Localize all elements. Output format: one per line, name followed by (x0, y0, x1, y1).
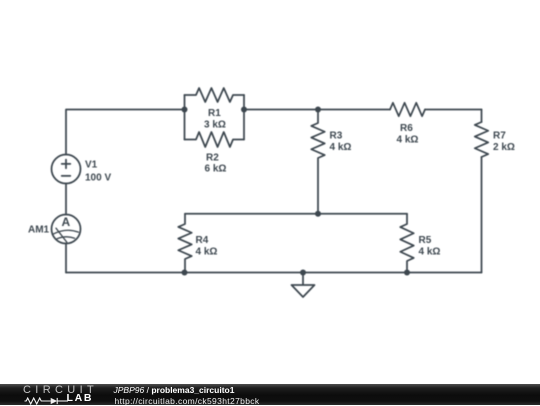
footer title line (114, 385, 235, 395)
resistor R6 (390, 103, 425, 116)
svg-text:2 kΩ: 2 kΩ (493, 142, 515, 153)
junction node R3 top (315, 107, 321, 113)
svg-text:R6: R6 (400, 123, 413, 134)
svg-text:4 kΩ: 4 kΩ (196, 247, 218, 258)
junction node R5 bottom (404, 270, 410, 276)
V1 plus sign (62, 160, 71, 169)
resistor R7 (475, 122, 488, 157)
resistor R1 (185, 88, 245, 102)
svg-text:4 kΩ: 4 kΩ (397, 135, 419, 146)
wire top-left: V1 top to R1/R2 left node (66, 110, 185, 155)
wire right rail upper (R7 top lead) (481, 110, 483, 123)
footer bar (0, 384, 540, 405)
resistor R4 with leads (178, 214, 191, 273)
AM1 needle (56, 228, 67, 242)
wire top-middle: R1/R2 right node to R3 node (244, 109, 318, 111)
resistor R3 with leads (311, 110, 324, 214)
svg-text:R1: R1 (208, 108, 221, 119)
footer url line (115, 396, 260, 406)
middle wire R4 top to R5 top (185, 213, 407, 215)
svg-text:4 kΩ: 4 kΩ (419, 247, 441, 258)
ammeter AM1 circle (52, 215, 81, 244)
svg-text:R5: R5 (419, 235, 432, 246)
wire right rail lower (R7 bottom to bottom wire) (481, 157, 483, 273)
svg-text:6 kΩ: 6 kΩ (205, 164, 227, 175)
bottom wire (66, 272, 482, 274)
V1 minus sign (62, 175, 71, 177)
svg-text:A: A (62, 215, 71, 229)
junction node R1R2 right (241, 107, 247, 113)
parallel block left vertical (184, 95, 186, 140)
svg-text:R7: R7 (493, 131, 506, 142)
svg-text:100 V: 100 V (85, 173, 111, 184)
svg-text:V1: V1 (85, 160, 98, 171)
wire AM1 bottom to bottom wire (65, 244, 67, 273)
junction node R3 bottom (315, 211, 321, 217)
wire V1 bottom to AM1 top (65, 184, 67, 215)
logo resistor zigzag and diode (24, 398, 68, 404)
resistor R5 with leads (400, 214, 413, 273)
AM1 meter arc small (57, 237, 75, 239)
svg-text:4 kΩ: 4 kΩ (330, 142, 352, 153)
wire R6 to top-right corner (425, 109, 482, 111)
svg-text:AM1: AM1 (28, 225, 50, 236)
svg-text:3 kΩ: 3 kΩ (204, 120, 226, 131)
parallel block right vertical (243, 95, 245, 140)
LAB text (67, 393, 94, 404)
svg-text:R4: R4 (196, 235, 209, 246)
CircuitLab logo CIRCUIT text (23, 384, 98, 397)
resistor R2 (185, 132, 245, 147)
junction node R4 bottom (182, 270, 188, 276)
junction node ground (300, 270, 306, 276)
svg-text:R2: R2 (206, 153, 219, 164)
junction node R1R2 left (182, 107, 188, 113)
voltage source V1 circle (52, 155, 81, 184)
AM1 meter arc large (53, 230, 79, 234)
wire top-right: R3 node to R6 left lead (318, 109, 390, 111)
svg-text:R3: R3 (330, 131, 343, 142)
ground symbol (292, 273, 315, 298)
